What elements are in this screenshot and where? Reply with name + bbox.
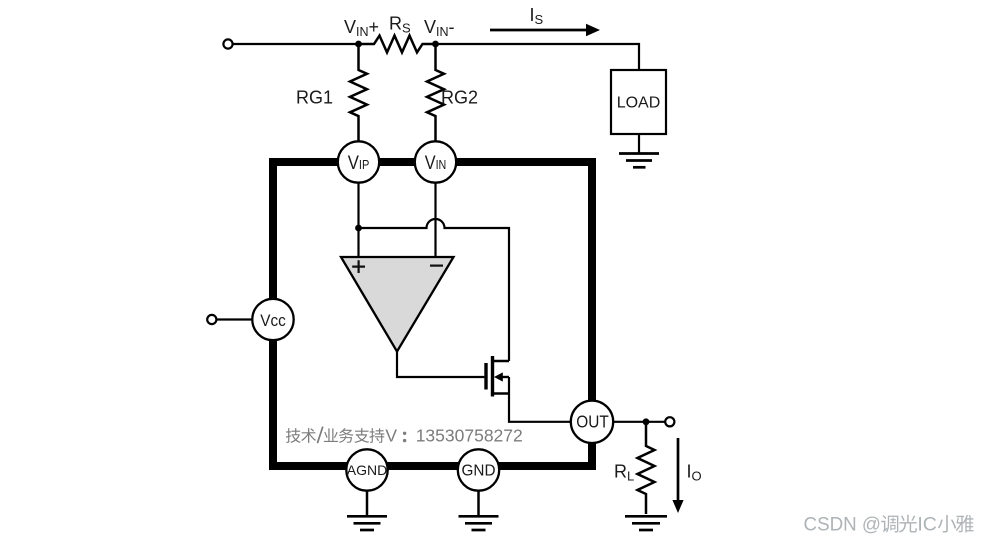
pin AGND (346, 449, 387, 490)
svg-text:OUT: OUT (576, 412, 609, 432)
label RG2 (441, 88, 478, 108)
support text (gray): 技术/业务支持V：13530758272 (286, 426, 523, 446)
IC body U1 (amplifier block boundary) (273, 162, 592, 466)
node junction dot on + input wire (355, 225, 362, 232)
label RG1 (296, 88, 333, 108)
terminal output (open circle) (665, 417, 674, 426)
pin Vcc (252, 299, 293, 340)
svg-text:RG1: RG1 (296, 88, 333, 108)
label IO (687, 462, 702, 484)
svg-text:LOAD: LOAD (617, 94, 661, 111)
wire pin AGND to ground (366, 470, 369, 516)
ground (below AGND) (347, 516, 387, 530)
wire pin GND to ground (477, 470, 480, 516)
pin GND (458, 449, 499, 490)
terminal Vcc (open circle) (207, 315, 216, 324)
current arrow IO (672, 438, 683, 513)
label VIN+ (344, 17, 379, 39)
pin VIP (338, 141, 379, 182)
label VIN- (424, 17, 455, 39)
pin VIN (415, 141, 456, 182)
terminal input (open circle, left) (223, 39, 232, 48)
transistor Q1 (NMOS) (486, 356, 509, 397)
wire op-amp output to MOSFET gate (397, 352, 484, 378)
node VIN- (junction dot) (432, 41, 439, 48)
wire feedback: + input node to MOSFET drain (hop over VIN wire) (359, 219, 510, 361)
resistor RS (shunt, horizontal) (359, 36, 436, 53)
wire input terminal to node VIN+ (233, 43, 359, 45)
svg-text:13530758272: 13530758272 (416, 426, 523, 446)
wire pin VIN to op-amp - input (434, 162, 436, 257)
svg-text:RG2: RG2 (441, 88, 478, 108)
svg-text:Vcc: Vcc (260, 311, 286, 330)
resistor RG2 (with leads) (427, 44, 444, 142)
pin OUT (571, 401, 613, 443)
node output junction dot (643, 418, 650, 425)
ground (below RL) (625, 516, 667, 530)
wire node VIN- to LOAD (top rail right + drop) (436, 44, 640, 70)
label RL (614, 462, 634, 484)
wire Vcc terminal to pin Vcc (212, 318, 262, 320)
resistor RG1 (with leads) (350, 44, 367, 142)
svg-text:V: V (385, 426, 397, 446)
watermark: CSDN @调光IC小雅 (804, 514, 975, 537)
ground (below LOAD) (619, 154, 659, 168)
current arrow IS (490, 24, 600, 37)
wire MOSFET source to pin OUT (509, 377, 572, 422)
svg-text:AGND: AGND (347, 462, 387, 478)
label RS (389, 14, 411, 36)
resistor RL (with leads) (638, 422, 655, 514)
wire LOAD to ground (638, 134, 640, 154)
node VIN+ (junction dot) (355, 41, 362, 48)
svg-text:GND: GND (462, 463, 496, 480)
wire pin VIP to op-amp + input (357, 162, 359, 257)
label IS (530, 5, 544, 27)
op-amp U2 (gm amplifier triangle) (341, 257, 454, 352)
LOAD block (611, 70, 666, 134)
ground (below GND) (459, 516, 499, 530)
wire pin OUT to output node (592, 421, 665, 423)
